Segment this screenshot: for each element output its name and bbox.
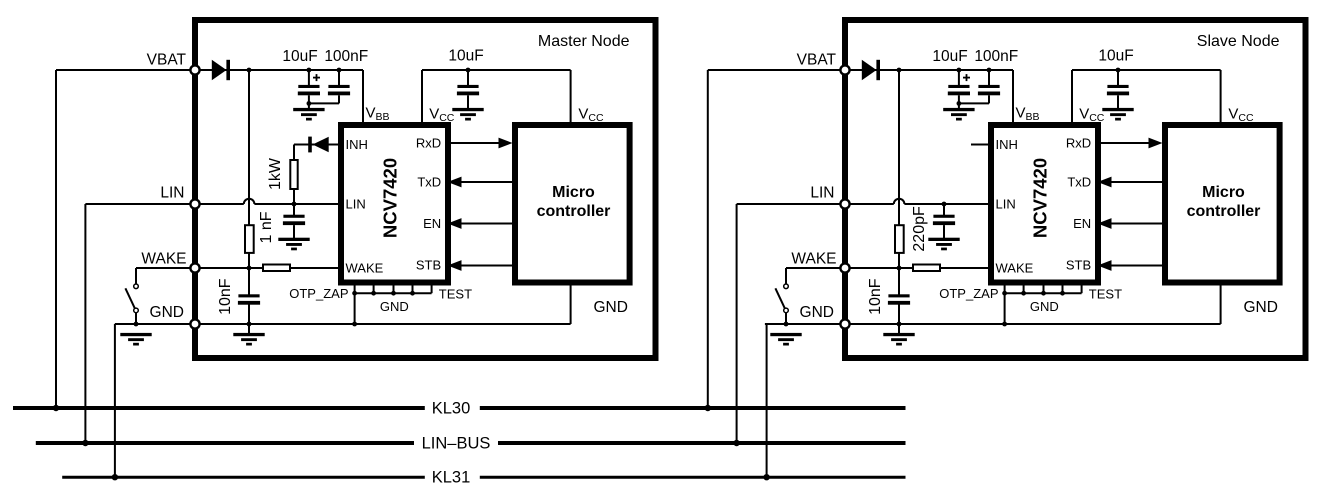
- wire TxD with arrow (master): [460, 181, 512, 183]
- node GND terminal (master): [190, 319, 199, 328]
- node VBAT-KL30 junction master: [53, 405, 59, 411]
- wire resistor to WAKE row (master): [248, 253, 250, 268]
- wire GND rail (slave): [765, 323, 841, 325]
- svg-text:TEST: TEST: [1089, 286, 1122, 301]
- svg-text:10uF: 10uF: [282, 48, 317, 65]
- svg-text:Master Node: Master Node: [538, 33, 630, 50]
- wire WAKE row (master): [199, 267, 341, 269]
- capacitor 10uF VCC (master): [466, 68, 471, 73]
- svg-text:RxD: RxD: [1066, 136, 1091, 151]
- wire GND drop slave: [767, 323, 786, 325]
- node switch GND junction (slave): [784, 322, 789, 327]
- wire resistor to LIN (master): [293, 189, 295, 204]
- svg-text:Slave Node: Slave Node: [1197, 33, 1280, 50]
- node pin dots bottom (master): [352, 291, 357, 296]
- op-amp NCV7420 transceiver box (slave): [991, 125, 1098, 283]
- wire LIN row with hop (master): [199, 203, 244, 205]
- node WAKE junction (master): [247, 266, 252, 271]
- wire VBAT rail to VBB corner (master): [199, 69, 363, 71]
- capacitor 100nF VBB (master): [337, 68, 342, 73]
- svg-text:10nF: 10nF: [217, 278, 234, 315]
- Master Node enclosure box: [195, 20, 656, 358]
- diode reverse-battery protection (master): [212, 60, 227, 80]
- wire STB with arrow (master): [460, 265, 512, 267]
- wire LIN drop slave: [737, 203, 841, 205]
- resistor WAKE series (slave): [913, 265, 940, 272]
- wire INH stub (slave): [971, 144, 991, 146]
- resistor vertical WAKE pull (slave): [895, 225, 904, 253]
- node VBAT terminal (master): [190, 65, 199, 74]
- capacitor 10nF (master): [248, 268, 250, 295]
- node junction after diode (slave): [897, 68, 902, 73]
- wire OTP_ZAP to GND rail (master): [354, 293, 356, 324]
- svg-text:TxD: TxD: [417, 175, 441, 190]
- svg-text:1 nF: 1 nF: [258, 211, 275, 243]
- svg-text:LIN: LIN: [996, 197, 1016, 212]
- svg-text:EN: EN: [423, 216, 441, 231]
- node GND-KL31 junction master: [112, 474, 118, 480]
- wire WAKE to switch (master): [136, 267, 191, 269]
- node junction after diode (master): [247, 68, 252, 73]
- wire WAKE row (slave): [849, 267, 991, 269]
- svg-text:10uF: 10uF: [1098, 48, 1133, 65]
- resistor WAKE series (master): [263, 265, 290, 272]
- wire INH pin (master): [294, 144, 341, 146]
- ground for LIN cap (slave): [928, 238, 959, 241]
- resistor 1kW (master): [290, 160, 297, 189]
- capacitor 10uF VBB (polarized) (master): [307, 68, 312, 73]
- switch WAKE (master): [134, 284, 139, 289]
- node LIN terminal (master): [190, 199, 199, 208]
- diode INH (cathode left) (master): [313, 137, 329, 152]
- svg-text:VBB: VBB: [1016, 105, 1040, 124]
- capacitor 10uF VCC (slave): [1116, 68, 1121, 73]
- svg-text:VBAT: VBAT: [797, 52, 837, 69]
- wire STB with arrow (slave): [1110, 265, 1162, 267]
- svg-text:GND: GND: [150, 304, 184, 321]
- wire RxD with arrow (slave): [1098, 142, 1150, 144]
- resistor vertical WAKE pull (master): [245, 225, 254, 253]
- svg-text:KL31: KL31: [432, 469, 471, 487]
- capacitor 10uF VBB (polarized) (slave): [957, 68, 962, 73]
- svg-text:INH: INH: [346, 137, 368, 152]
- micro controller box (master): [515, 125, 630, 283]
- svg-text:10uF: 10uF: [932, 48, 967, 65]
- svg-text:OTP_ZAP: OTP_ZAP: [289, 286, 348, 301]
- svg-text:WAKE: WAKE: [141, 251, 186, 268]
- svg-text:VCC: VCC: [429, 106, 455, 125]
- wire WAKE to switch (slave): [786, 267, 841, 269]
- node LIN-BUS junction slave: [733, 440, 739, 446]
- ground for VBB caps (master): [293, 108, 324, 111]
- node LIN-BUS junction master: [82, 440, 88, 446]
- svg-text:Micro: Micro: [1202, 184, 1245, 201]
- svg-text:STB: STB: [1066, 258, 1091, 273]
- svg-text:GND: GND: [380, 299, 409, 314]
- Slave Node enclosure box: [845, 20, 1306, 358]
- capacitor 1 nF on LIN (master): [293, 204, 295, 215]
- svg-text:220pF: 220pF: [911, 206, 928, 252]
- wire RxD with arrow (master): [448, 142, 500, 144]
- svg-text:VCC: VCC: [578, 106, 604, 125]
- svg-text:LIN: LIN: [160, 185, 184, 202]
- svg-text:LIN: LIN: [810, 185, 834, 202]
- wire EN with arrow (master): [460, 223, 512, 225]
- svg-text:TEST: TEST: [439, 286, 472, 301]
- ground for 10nF (slave): [883, 333, 914, 336]
- svg-text:VBB: VBB: [366, 105, 390, 124]
- svg-text:WAKE: WAKE: [346, 261, 384, 276]
- node WAKE terminal (slave): [840, 263, 849, 272]
- node pin dots bottom (slave): [1002, 291, 1007, 296]
- wire resistor to WAKE row (slave): [898, 253, 900, 268]
- node VBB caps ground junction (slave): [957, 101, 962, 106]
- wire bottom pins bus (slave): [1004, 283, 1006, 294]
- wire vertical from VBAT junction down (master): [248, 70, 250, 225]
- wire VBAT rail to VBB corner (slave): [849, 69, 1013, 71]
- svg-text:controller: controller: [1187, 203, 1261, 220]
- wire LIN drop master: [85, 203, 191, 205]
- svg-text:Micro: Micro: [552, 184, 595, 201]
- wire KL30 bus: [13, 406, 425, 410]
- ground for LIN cap (master): [278, 238, 309, 241]
- svg-text:GND: GND: [1244, 299, 1278, 316]
- svg-text:NCV7420: NCV7420: [1030, 158, 1051, 238]
- svg-text:VCC: VCC: [1228, 106, 1254, 125]
- svg-text:KL30: KL30: [432, 400, 471, 418]
- svg-text:NCV7420: NCV7420: [380, 158, 401, 238]
- svg-text:LIN: LIN: [346, 197, 366, 212]
- wire LIN row with hop (slave): [849, 203, 894, 205]
- ground at switch (master): [120, 333, 151, 336]
- wire bottom pins bus (master): [354, 283, 356, 294]
- ground for VCC cap (master): [452, 108, 483, 111]
- svg-text:GND: GND: [594, 299, 628, 316]
- wire INH diode to resistor (master): [293, 145, 295, 161]
- svg-text:OTP_ZAP: OTP_ZAP: [939, 286, 998, 301]
- ground for VBB caps (slave): [943, 108, 974, 111]
- svg-text:GND: GND: [1030, 299, 1059, 314]
- node OTP_ZAP GND junction (slave): [1002, 322, 1007, 327]
- svg-text:EN: EN: [1073, 216, 1091, 231]
- node GND terminal (slave): [840, 319, 849, 328]
- micro controller box (slave): [1165, 125, 1280, 283]
- capacitor 100nF VBB (slave): [987, 68, 992, 73]
- svg-text:INH: INH: [996, 137, 1018, 152]
- svg-text:10uF: 10uF: [448, 48, 483, 65]
- svg-text:100nF: 100nF: [974, 48, 1018, 65]
- diode reverse-battery protection (slave): [862, 60, 877, 80]
- svg-text:VCC: VCC: [1079, 106, 1105, 125]
- wire vertical from VBAT junction down (slave): [898, 70, 900, 225]
- wire GND rail (master): [115, 323, 191, 325]
- capacitor 10nF (slave): [898, 268, 900, 295]
- node OTP_ZAP GND junction (master): [352, 322, 357, 327]
- svg-text:10nF: 10nF: [867, 278, 884, 315]
- node VBB caps ground junction (master): [307, 101, 312, 106]
- svg-text:controller: controller: [537, 203, 611, 220]
- wire OTP_ZAP to GND rail (slave): [1004, 293, 1006, 324]
- node WAKE terminal (master): [190, 263, 199, 272]
- node switch GND junction (master): [134, 322, 139, 327]
- node 10nF GND junction (master): [247, 322, 252, 327]
- wire VCC rail (slave): [1072, 69, 1221, 71]
- svg-text:100nF: 100nF: [324, 48, 368, 65]
- wire VBAT drop master: [56, 69, 191, 71]
- node GND-KL31 junction slave: [763, 474, 769, 480]
- node VBAT terminal (slave): [840, 65, 849, 74]
- node LIN junction (slave): [942, 202, 947, 207]
- switch WAKE (slave): [784, 284, 789, 289]
- svg-text:TxD: TxD: [1067, 175, 1091, 190]
- svg-text:VBAT: VBAT: [147, 52, 187, 69]
- wire VCC rail (master): [422, 69, 571, 71]
- wire GND drop master: [115, 323, 136, 325]
- ground for 10nF (master): [233, 333, 264, 336]
- svg-text:1kW: 1kW: [267, 157, 284, 190]
- wire KL31 bus: [62, 476, 425, 479]
- svg-text:RxD: RxD: [416, 136, 441, 151]
- ground for VCC cap (slave): [1102, 108, 1133, 111]
- wire TxD with arrow (slave): [1110, 181, 1162, 183]
- svg-text:STB: STB: [416, 258, 441, 273]
- node LIN terminal (slave): [840, 199, 849, 208]
- node WAKE junction (slave): [897, 266, 902, 271]
- wire VBAT drop slave: [708, 69, 841, 71]
- op-amp NCV7420 transceiver box (master): [341, 125, 448, 283]
- node 10nF GND junction (slave): [897, 322, 902, 327]
- ground at switch (slave): [770, 333, 801, 336]
- svg-text:WAKE: WAKE: [996, 261, 1034, 276]
- svg-text:WAKE: WAKE: [791, 251, 836, 268]
- node LIN junction (master): [292, 202, 297, 207]
- wire EN with arrow (slave): [1110, 223, 1162, 225]
- svg-text:LIN–BUS: LIN–BUS: [422, 435, 491, 453]
- node VBAT-KL30 junction slave: [705, 405, 711, 411]
- capacitor 220pF on LIN (slave): [943, 204, 945, 215]
- wire LIN-BUS: [36, 441, 414, 445]
- svg-text:GND: GND: [800, 304, 834, 321]
